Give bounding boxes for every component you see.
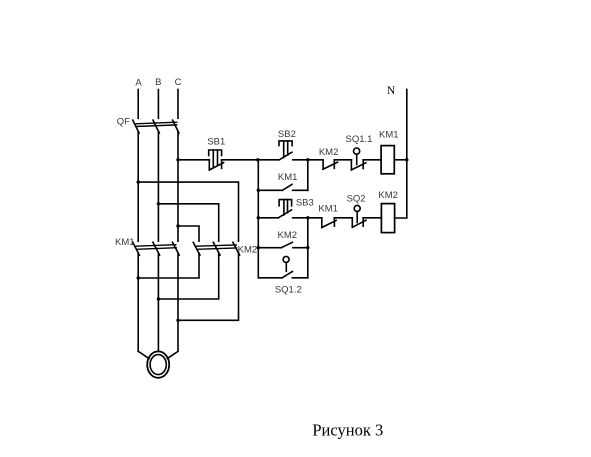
svg-text:QF: QF [117,116,130,127]
contact KM1 NC left leg [321,218,323,228]
motor M outer circle [147,351,169,377]
wire KM1 pole3 down to motor [177,253,179,351]
node phase C bridge [176,224,179,227]
button SB3 blade [278,210,291,218]
switch SQ2 right leg [362,218,364,226]
button SB3 cap [279,200,292,206]
contactor KM2 linkage bar [196,245,236,249]
wire KM1 pole1 down to motor [137,253,139,351]
right rail SB2 loop [307,160,309,191]
svg-text:KM1: KM1 [318,203,338,214]
switch SQ1.1 right leg [362,160,364,169]
contactor KM2 main pole2 blade [213,242,220,255]
node right rail row4 [306,246,309,249]
switch SQ1.2 roller circle [283,256,289,262]
node phase B bridge [157,202,160,205]
contact KM2 NC blade [323,162,337,169]
button SB2 plunger stems [284,141,288,158]
breaker QF pole B blade [153,120,159,133]
wire B to KM2 pole2 [158,204,218,241]
breaker QF linkage bar [136,122,177,126]
svg-text:SQ1.1: SQ1.1 [346,134,373,145]
wire SB3 to KM1 NC [293,217,322,219]
node tap C control [176,158,179,161]
contact KM1 NO wire right [293,189,308,191]
switch SQ1.2 stem [285,262,287,271]
wire KM1 NC to SQ2 [334,217,352,219]
coil KM2 [381,204,394,233]
button SB1 plunger stems [213,150,217,167]
wire phase A QF to KM1 [137,131,139,241]
svg-text:C: C [175,77,182,88]
phase line C [177,90,179,119]
button SB1 cap [209,150,222,155]
node bus B lower [157,297,160,300]
phase line A [137,90,139,119]
wire KM2 pole1 to phase A bus [138,253,199,278]
svg-text:A: A [135,78,142,89]
svg-text:KM1: KM1 [115,237,135,248]
wire SQ2 to KM2 coil [363,217,381,219]
left control rail [257,160,259,278]
wire motor lead left [138,351,149,358]
node bus A lower [137,276,140,279]
contactor KM1 main pole2 blade [153,242,160,255]
svg-text:SB3: SB3 [296,198,314,209]
button SB1 left leg [208,160,210,170]
contactor KM2 main pole3 blade [233,242,240,255]
button SB3 plunger stems [284,200,288,215]
svg-text:KM2: KM2 [319,147,339,158]
switch SQ2 left leg [351,218,353,228]
svg-text:KM2: KM2 [278,230,298,241]
contact KM2 NO wire left [258,247,281,249]
node left rail row1 [256,158,259,161]
N rail [395,89,407,218]
switch SQ1.1 stem [356,154,358,164]
svg-text:SB1: SB1 [207,137,225,148]
wire phase B QF to KM1 [157,131,159,241]
node bus C lower [176,319,179,322]
contact KM2 NC left leg [322,160,324,169]
motor M inner circle [150,355,166,375]
svg-text:KM1: KM1 [379,130,399,141]
button SB1 blade [209,163,223,170]
svg-text:N: N [387,85,396,97]
node left rail row4 [257,246,260,249]
phase line B [157,90,159,119]
contactor KM1 main pole1 blade [133,242,140,255]
svg-text:KM2: KM2 [378,190,398,201]
wire KM1 pole2 down to motor [157,253,159,351]
contact KM1 NC right leg [333,218,335,226]
wire motor lead right [167,351,178,358]
switch SQ1.2 wire left [258,277,282,279]
node phase A bridge [137,180,140,183]
wire KM2 pole2 to phase B bus [158,253,218,299]
contactor KM1 main pole3 blade [173,242,180,255]
switch SQ1.1 left leg [350,160,352,170]
switch SQ2 blade [352,220,366,227]
switch SQ2 stem [356,211,358,222]
switch SQ2 roller circle [354,205,360,211]
wire KM2 pole3 to phase C bus [178,253,239,320]
svg-text:SB2: SB2 [278,129,296,140]
svg-text:SQ2: SQ2 [347,194,366,205]
wire tap C to control [178,159,209,161]
button SB2 blade [279,152,292,160]
node right rail row3 [306,216,309,219]
contact KM1 NC blade [322,220,336,227]
breaker QF pole C blade [173,120,179,133]
contact KM2 NO wire right [293,247,308,249]
switch SQ1.1 blade [351,163,366,170]
node left rail row2 [257,189,260,192]
button SB1 right leg [221,160,223,169]
svg-text:KM2: KM2 [238,245,258,256]
switch SQ1.1 roller circle [354,148,360,154]
wire phase C QF to KM1 [177,131,179,241]
svg-text:B: B [155,77,161,88]
rail KM2 loop right [307,218,309,278]
wire KM1 coil to N rail [394,159,407,161]
svg-text:Рисунок 3: Рисунок 3 [312,420,383,439]
contact KM1 NO wire left [258,189,282,191]
wire A to KM2 pole3 [138,182,238,241]
contactor KM2 main pole1 blade [193,242,200,255]
coil KM1 [381,146,394,174]
switch SQ1.2 blade [282,272,292,278]
wire SB2 to KM2 contact [293,159,323,161]
wire SQ1.1 to KM1 coil [363,159,381,161]
contact KM2 NO blade [281,242,292,247]
contactor KM1 linkage bar [136,245,176,250]
wire C to KM2 pole1 [178,226,199,241]
contact KM1 NO blade [282,184,292,190]
node N rail coil KM1 [405,158,408,161]
svg-text:SQ1.2: SQ1.2 [275,285,302,296]
node left rail row3 [257,216,260,219]
node right rail row1 [306,158,309,161]
switch SQ1.2 wire right [292,277,308,279]
button SB2 cap [279,141,292,146]
wire KM2 NC to SQ1.1 [334,159,351,161]
wire SB1 to SB2 [222,159,280,161]
breaker QF pole A blade [133,120,139,133]
contact KM2 NC right leg [333,160,335,169]
svg-text:KM1: KM1 [278,172,298,183]
wire SB3 row left [258,217,278,219]
